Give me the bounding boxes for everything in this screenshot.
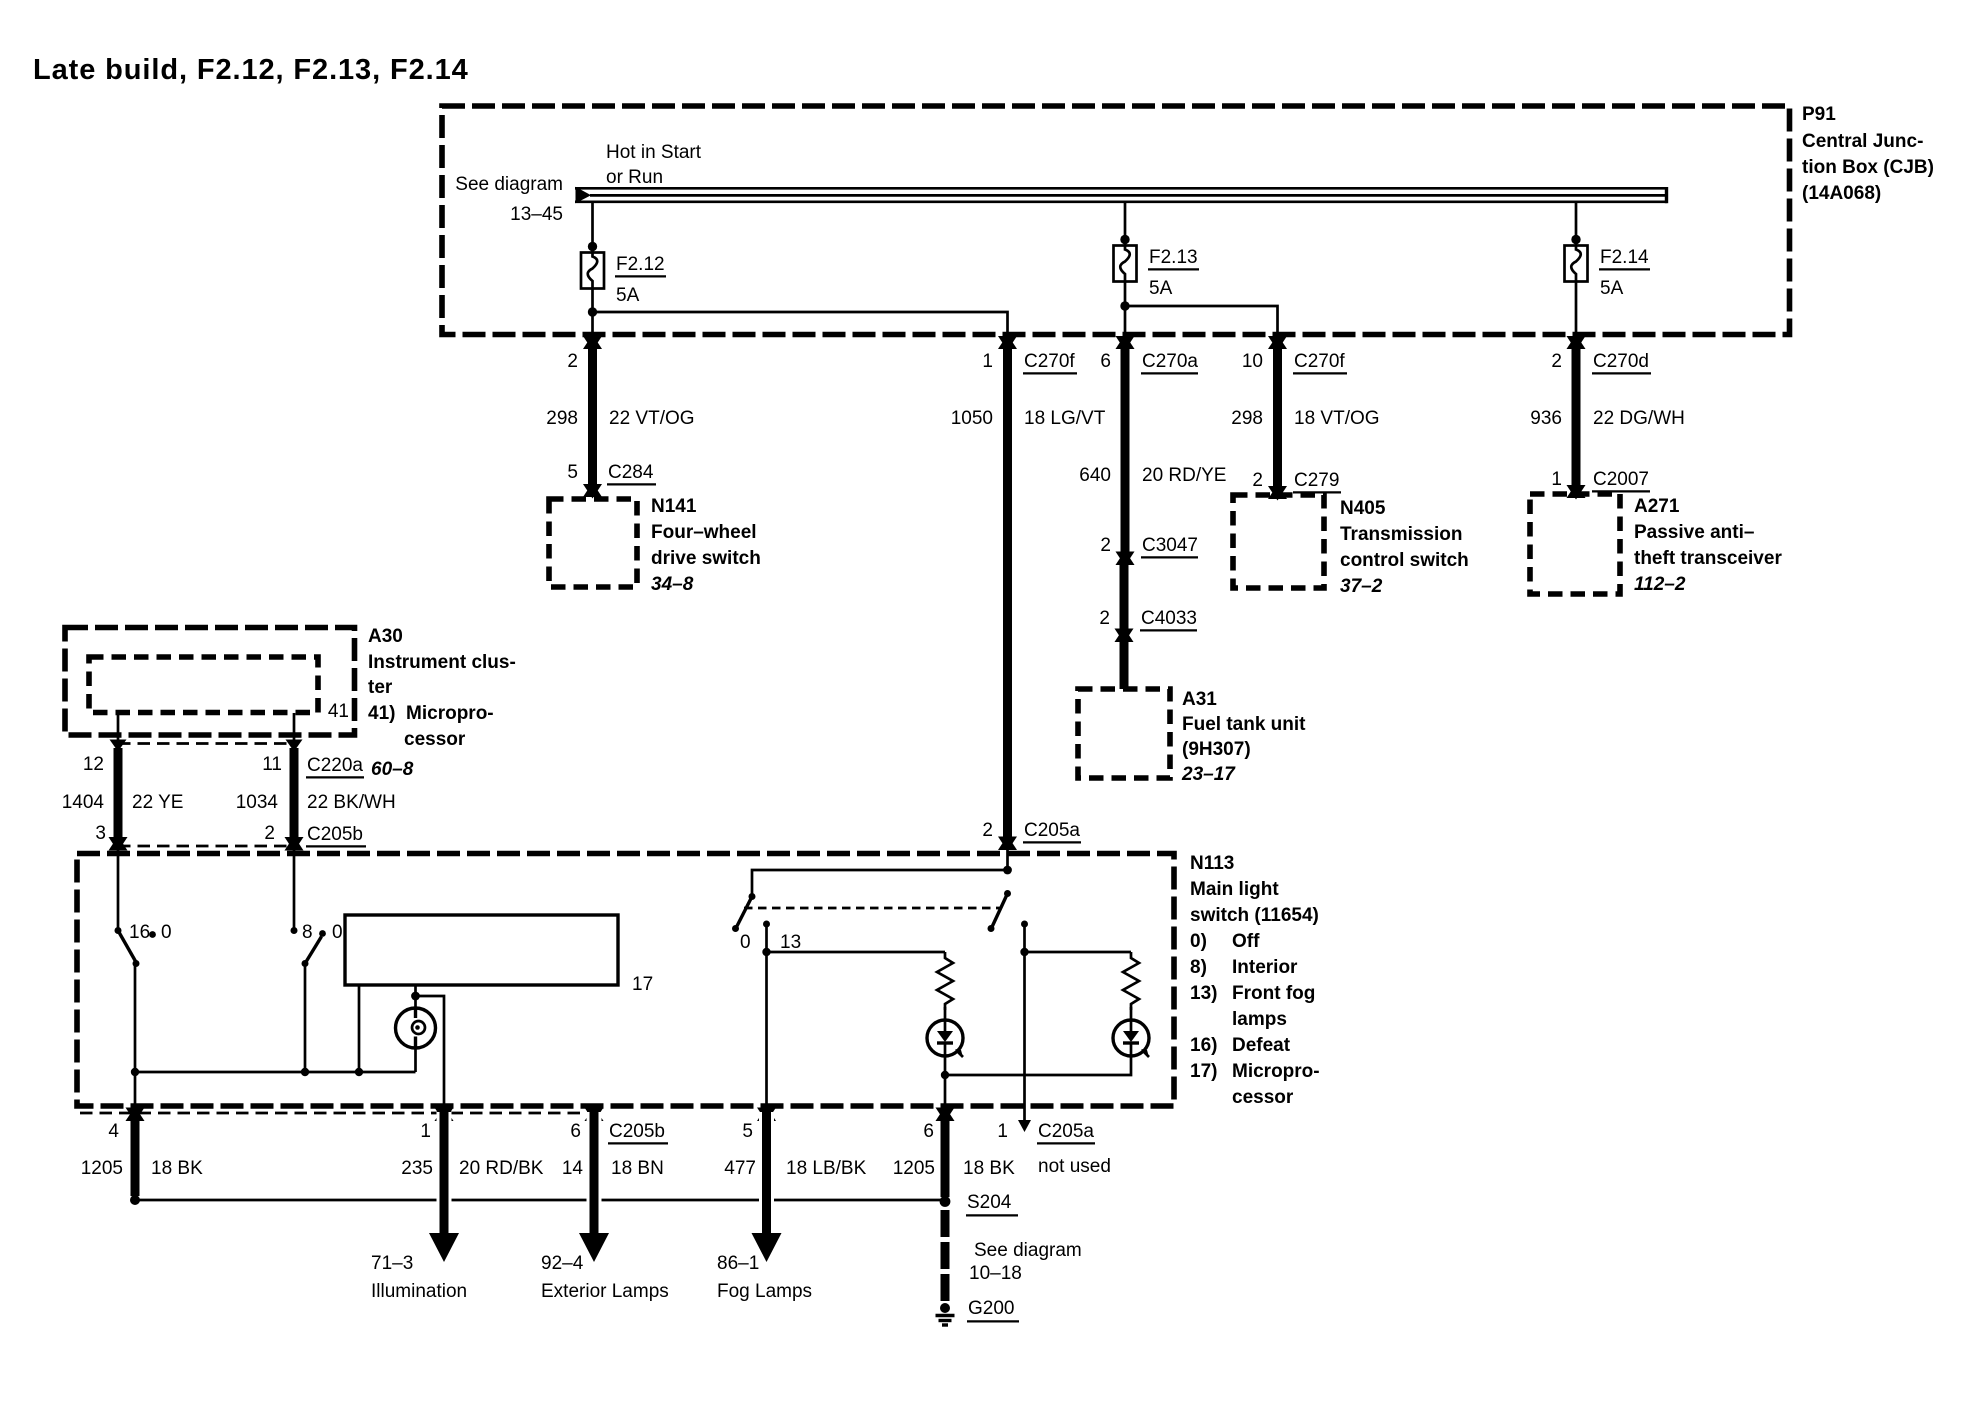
label A31 Fuel tank unit (9H307) 23-17 [1181, 689, 1306, 785]
svg-text:37–2: 37–2 [1340, 576, 1383, 597]
label S204 [966, 1192, 1018, 1215]
power bus bar [575, 187, 1667, 203]
svg-text:F2.12: F2.12 [616, 254, 665, 275]
svg-text:2: 2 [567, 351, 578, 372]
connector bowtie pin 4 at N113 bottom [126, 1107, 145, 1123]
svg-text:477: 477 [724, 1158, 756, 1179]
svg-text:22 BK/WH: 22 BK/WH [307, 792, 396, 813]
switch 8 pivot [291, 927, 298, 934]
svg-text:N141: N141 [651, 496, 697, 517]
svg-text:0: 0 [332, 922, 343, 943]
thin dashed line inside N113 bottom [80, 1112, 590, 1115]
contact terminal 13 [763, 921, 770, 928]
splice S204 [940, 1196, 951, 1207]
main light switch N113 (dashed box) [77, 854, 1174, 1107]
wire block17 to bus (left leg) [358, 985, 361, 1072]
svg-text:10–18: 10–18 [969, 1263, 1022, 1284]
svg-text:14: 14 [562, 1158, 584, 1179]
wire 1205 18 BK (thick, to splice) [131, 1112, 140, 1196]
fuse F2.14 [1565, 246, 1588, 282]
svg-text:16): 16) [1190, 1035, 1217, 1056]
label 936 22 DG/WH [1530, 408, 1685, 429]
svg-text:S204: S204 [967, 1192, 1012, 1213]
switch 16 contact [133, 960, 140, 967]
svg-text:6: 6 [570, 1121, 581, 1142]
wire branch F2.13 to C279 column [1125, 306, 1278, 338]
arrow into connector C220a (pin 12) [110, 740, 127, 752]
resistor 2 [1123, 952, 1139, 1010]
svg-text:Fuel tank unit: Fuel tank unit [1182, 714, 1306, 735]
svg-text:5A: 5A [616, 285, 640, 306]
svg-text:G200: G200 [968, 1298, 1014, 1319]
connector bowtie pin 5 at N113 bottom [757, 1107, 776, 1123]
svg-text:34–8: 34–8 [651, 574, 694, 595]
junction at 13 column [762, 948, 770, 956]
svg-text:18 VT/OG: 18 VT/OG [1294, 408, 1380, 429]
microprocessor block 17 (rectangle) [345, 915, 618, 985]
switch 8 contact [302, 960, 309, 967]
wire 13 terminal down to pin 5 [765, 924, 768, 1106]
connector bowtie C2007 [1567, 484, 1586, 500]
svg-text:4: 4 [108, 1121, 119, 1142]
svg-text:Passive anti–: Passive anti– [1634, 522, 1754, 543]
svg-text:(9H307): (9H307) [1182, 739, 1251, 760]
label: Hot in Start or Run [606, 142, 702, 188]
junction LED bus [941, 1071, 949, 1079]
junction above F2.12 [588, 242, 597, 251]
junction above F2.13 [1120, 235, 1129, 244]
svg-text:Hot in Start: Hot in Start [606, 142, 702, 163]
junction below F2.13 [1120, 301, 1129, 310]
instrument cluster A30 (outer dashed box) [65, 628, 355, 736]
svg-text:0: 0 [161, 922, 172, 943]
wire C205a into fog switch (thin) [1006, 850, 1009, 870]
svg-text:ter: ter [368, 677, 393, 698]
svg-text:A30: A30 [368, 626, 403, 647]
four-wheel drive switch N141 (dashed box) [549, 499, 637, 587]
svg-text:1404: 1404 [62, 792, 105, 813]
svg-text:18 LB/BK: 18 LB/BK [786, 1158, 867, 1179]
fog switch right pivot [1004, 890, 1011, 897]
fog switch right open contact [988, 925, 995, 932]
wire feed across to left fog pivot [752, 870, 1008, 897]
wire branch F2.12 to C205a column [593, 312, 1008, 338]
svg-text:12: 12 [83, 754, 104, 775]
fog switch left pivot [749, 893, 756, 900]
label A30 Instrument cluster 41) Microprocessor [368, 626, 516, 750]
pin 6 / connector C270a [1100, 351, 1198, 373]
junction block17 left leg [355, 1068, 363, 1076]
svg-text:18 BK: 18 BK [151, 1158, 203, 1179]
label N141 Four-wheel drive switch 34-8 [651, 496, 761, 595]
label N113 Main light switch (11654) with positions [1190, 853, 1320, 1108]
svg-text:Four–wheel: Four–wheel [651, 522, 757, 543]
wire switch 8 down to junction (thin) [304, 964, 307, 1073]
junction fog switch feed [1003, 866, 1012, 875]
svg-text:13: 13 [780, 932, 801, 953]
wire junction down to pin 6 [944, 1075, 947, 1106]
fuel tank unit A31 (dashed box) [1078, 689, 1170, 778]
svg-text:(14A068): (14A068) [1802, 183, 1881, 204]
destination 92-4 Exterior Lamps [541, 1253, 669, 1302]
svg-text:C205b: C205b [609, 1121, 665, 1142]
arrow into connector C220a (pin 11) [286, 740, 303, 752]
svg-text:936: 936 [1530, 408, 1562, 429]
svg-text:Central Junc-: Central Junc- [1802, 131, 1923, 152]
svg-text:6: 6 [1100, 351, 1111, 372]
svg-text:20 RD/YE: 20 RD/YE [1142, 465, 1226, 486]
connector label C220a / 60-8 [306, 755, 414, 780]
svg-text:A31: A31 [1182, 689, 1217, 710]
label F2.13 5A [1148, 247, 1199, 299]
svg-text:cessor: cessor [404, 729, 466, 750]
connector bowtie pin 6 at N113 bottom (S204 column) [936, 1107, 955, 1123]
svg-text:C2007: C2007 [1593, 469, 1649, 490]
svg-text:1: 1 [420, 1121, 431, 1142]
svg-text:112–2: 112–2 [1634, 574, 1686, 595]
svg-text:18 BK: 18 BK [963, 1158, 1015, 1179]
svg-text:41) Micropro-: 41) Micropro- [368, 703, 494, 724]
svg-text:N113: N113 [1190, 853, 1234, 874]
svg-text:Interior: Interior [1232, 957, 1298, 978]
wire C205b pin2 into switch 8 (thin) [293, 850, 296, 931]
junction at right column [1020, 948, 1028, 956]
wire C205b pin3 into switch 16 (thin) [117, 850, 120, 931]
svg-text:Micropro-: Micropro- [1232, 1061, 1320, 1082]
resistor 1 [937, 952, 953, 1010]
pin 2 / connector C3047 [1100, 535, 1198, 557]
svg-text:lamps: lamps [1232, 1009, 1287, 1030]
junction at switch 8 column [301, 1068, 309, 1076]
internal bus wire [135, 1071, 416, 1074]
svg-text:18 BN: 18 BN [611, 1158, 664, 1179]
wire 14 18 BN (thick with arrow) [579, 1112, 609, 1262]
label 298 18 VT/OG [1231, 408, 1379, 429]
svg-text:1: 1 [1551, 469, 1562, 490]
svg-text:Main light: Main light [1190, 879, 1279, 900]
svg-text:Front fog: Front fog [1232, 983, 1315, 1004]
svg-text:tion Box (CJB): tion Box (CJB) [1802, 157, 1934, 178]
label 298 22 VT/OG [546, 408, 694, 429]
svg-text:10: 10 [1242, 351, 1263, 372]
svg-text:N405: N405 [1340, 498, 1386, 519]
fog switch left blade [736, 897, 752, 929]
wire pin 12 to C220a (thin) [117, 713, 120, 741]
connector bowtie pin 6 C205b at N113 bottom [585, 1107, 604, 1123]
fuse F2.13 [1114, 246, 1137, 282]
wire 477 18 LB/BK (thick with arrow) [752, 1112, 782, 1262]
label A271 Passive anti-theft transceiver 112-2 [1634, 496, 1782, 595]
svg-text:C284: C284 [608, 462, 654, 483]
wire 298 18 VT/OG (thick) [1273, 342, 1282, 492]
svg-text:3: 3 [95, 823, 106, 844]
svg-text:13): 13) [1190, 983, 1217, 1004]
svg-text:8: 8 [302, 922, 313, 943]
svg-text:23–17: 23–17 [1181, 764, 1236, 785]
wire bus to fuse F2.13 [1124, 203, 1127, 245]
label F2.12 5A [615, 254, 666, 306]
svg-text:C270f: C270f [1024, 351, 1075, 372]
connector bowtie C270f at C279 column [1268, 335, 1287, 351]
svg-text:235: 235 [401, 1158, 433, 1179]
wire 936 22 DG/WH (thick) [1572, 342, 1581, 491]
svg-text:60–8: 60–8 [371, 759, 414, 780]
svg-text:C279: C279 [1294, 470, 1339, 491]
svg-text:71–3: 71–3 [371, 1253, 413, 1274]
fog switch right blade [992, 894, 1008, 929]
label 1205 18 BK [893, 1158, 1015, 1179]
wire 1205 18 BK to splice S204 (thick) [941, 1112, 950, 1197]
svg-text:92–4: 92–4 [541, 1253, 584, 1274]
svg-text:Transmission: Transmission [1340, 524, 1463, 545]
wire bus to fuse F2.12 [591, 203, 594, 252]
svg-text:0: 0 [740, 932, 751, 953]
connector bowtie C3047 [1116, 551, 1135, 567]
label P91 Central Junction Box [1802, 104, 1934, 204]
pin 10 / connector C270f [1242, 351, 1347, 373]
connector bowtie C205b pin 2 [285, 836, 304, 852]
svg-text:Illumination: Illumination [371, 1281, 467, 1302]
svg-text:Fog Lamps: Fog Lamps [717, 1281, 812, 1302]
svg-text:2: 2 [1100, 535, 1111, 556]
switch 16 blade [118, 931, 137, 964]
junction below F2.12 [588, 307, 597, 316]
svg-text:16: 16 [129, 922, 150, 943]
svg-text:5A: 5A [1149, 278, 1173, 299]
svg-text:1205: 1205 [81, 1158, 123, 1179]
svg-text:11: 11 [262, 754, 282, 775]
label F2.14 5A [1599, 247, 1650, 299]
wire C205a pin 1 stub with arrow [1018, 1106, 1031, 1132]
svg-text:5: 5 [742, 1121, 753, 1142]
pin 5 / connector C284 [567, 462, 656, 484]
pin 1 / connector C205a not used [997, 1121, 1110, 1177]
svg-text:C270d: C270d [1593, 351, 1649, 372]
connector bowtie C205a [998, 836, 1017, 852]
label 1050 18 LG/VT [951, 408, 1106, 429]
connector bowtie C4033 [1115, 628, 1134, 644]
connector bowtie C270d at F2.14 column [1567, 335, 1586, 351]
wire branch to pin 1 (thin) [416, 996, 445, 1106]
label 235 20 RD/BK [401, 1158, 544, 1179]
connector bowtie C284 [583, 483, 602, 499]
central junction box P91 (dashed outline) [442, 106, 1790, 335]
svg-text:22 YE: 22 YE [132, 792, 183, 813]
wire C3047 to C4033 (thick) [1120, 562, 1129, 635]
wire bus to fuse F2.14 [1575, 203, 1578, 245]
svg-text:2: 2 [264, 823, 275, 844]
svg-text:not used: not used [1038, 1156, 1111, 1177]
wire 1404 22 YE (thick) [114, 748, 123, 840]
svg-text:1: 1 [997, 1121, 1008, 1142]
label 14 18 BN [562, 1158, 664, 1179]
svg-text:6: 6 [923, 1121, 934, 1142]
svg-text:Late build, F2.12, F2.13, F2.1: Late build, F2.12, F2.13, F2.14 [33, 54, 469, 86]
svg-text:1: 1 [982, 351, 993, 372]
svg-text:1034: 1034 [236, 792, 279, 813]
svg-text:2: 2 [1099, 608, 1110, 629]
wire C4033 to fuel tank unit (thick) [1120, 639, 1129, 689]
svg-text:theft transceiver: theft transceiver [1634, 548, 1782, 569]
contact terminal right column [1021, 921, 1028, 928]
connector bowtie C205b pin 3 [109, 836, 128, 852]
svg-text:C270a: C270a [1142, 351, 1198, 372]
svg-text:8): 8) [1190, 957, 1207, 978]
microprocessor block inside A30 (inner dashed box) [89, 657, 318, 713]
svg-text:C220a: C220a [307, 755, 363, 776]
junction above lamp [411, 992, 420, 1001]
splice at pin 4 [130, 1195, 140, 1205]
svg-text:C3047: C3047 [1142, 535, 1198, 556]
label 477 18 LB/BK [724, 1158, 866, 1179]
connector bowtie C270a at F2.13 column [1116, 335, 1135, 351]
wire LED1 to junction [944, 1055, 947, 1075]
wire 640 20 RD/YE (thick) [1121, 342, 1130, 558]
label 8 / 0 with position dot [302, 922, 343, 943]
svg-text:P91: P91 [1802, 104, 1836, 125]
junction at switch 16 column [131, 1068, 139, 1076]
wire below fuse F2.13 [1124, 282, 1127, 339]
svg-text:C4033: C4033 [1141, 608, 1197, 629]
svg-text:1205: 1205 [893, 1158, 935, 1179]
pin 2 / connector C270d [1551, 351, 1651, 373]
pin 1 / connector C270f [982, 351, 1077, 373]
fog switch left open contact [732, 925, 739, 932]
LED indicator 2 [1113, 1007, 1149, 1057]
label 1034 22 BK/WH [236, 792, 396, 813]
svg-text:Exterior Lamps: Exterior Lamps [541, 1281, 669, 1302]
wire 298 22 VT/OG (thick) [588, 342, 597, 486]
svg-text:switch (11654): switch (11654) [1190, 905, 1319, 926]
svg-text:drive switch: drive switch [651, 548, 761, 569]
pin 6 / connector C205b label [570, 1121, 668, 1143]
svg-text:C205b: C205b [307, 824, 363, 845]
pin 2 / connector C205a at N113 top [982, 820, 1081, 842]
svg-text:or Run: or Run [606, 167, 663, 188]
label N405 Transmission control switch 37-2 [1340, 498, 1469, 597]
fuse F2.12 [581, 253, 604, 289]
svg-text:Defeat: Defeat [1232, 1035, 1291, 1056]
wire LED2 back to junction bus [945, 1055, 1131, 1075]
label G200 [967, 1298, 1019, 1321]
connector bowtie pin 1 at N113 bottom [435, 1107, 454, 1123]
svg-text:Instrument clus-: Instrument clus- [368, 652, 516, 673]
svg-text:C205a: C205a [1038, 1121, 1094, 1142]
switch 16 pivot [115, 927, 122, 934]
destination 86-1 Fog Lamps [717, 1253, 812, 1302]
junction above F2.14 [1571, 235, 1580, 244]
label 0 / 13 [740, 932, 801, 953]
svg-text:17: 17 [632, 974, 653, 995]
svg-text:5: 5 [567, 462, 578, 483]
destination 71-3 Illumination [371, 1253, 467, 1302]
wire bulb to bus [414, 1047, 417, 1072]
svg-text:22 DG/WH: 22 DG/WH [1593, 408, 1685, 429]
wire to resistor 2 [1025, 951, 1132, 954]
svg-text:See diagram: See diagram [974, 1240, 1082, 1261]
svg-text:F2.13: F2.13 [1149, 247, 1198, 268]
pin 2 / connector C4033 [1099, 608, 1197, 630]
svg-text:20 RD/BK: 20 RD/BK [459, 1158, 544, 1179]
wire 235 20 RD/BK (thick with arrow) [429, 1112, 459, 1262]
LED indicator 1 [927, 1007, 963, 1057]
pin 1 / connector C2007 [1551, 469, 1650, 491]
svg-text:18 LG/VT: 18 LG/VT [1024, 408, 1106, 429]
svg-text:F2.14: F2.14 [1600, 247, 1649, 268]
label 1205 18 BK [81, 1158, 203, 1179]
svg-text:C270f: C270f [1294, 351, 1345, 372]
svg-text:See diagram: See diagram [455, 174, 563, 195]
svg-text:22 VT/OG: 22 VT/OG [609, 408, 695, 429]
svg-text:86–1: 86–1 [717, 1253, 759, 1274]
wire below fuse F2.14 [1575, 282, 1578, 339]
svg-text:298: 298 [1231, 408, 1263, 429]
connector bowtie C270f at C205a column [998, 335, 1017, 351]
svg-text:2: 2 [1252, 470, 1263, 491]
wire 1034 22 BK/WH (thick) [290, 748, 299, 840]
svg-text:Off: Off [1232, 931, 1260, 952]
ground distribution wire [135, 1199, 941, 1202]
connector label C205b [306, 824, 366, 846]
passive anti-theft transceiver A271 (dashed box) [1530, 494, 1620, 594]
switch 8 blade [305, 937, 322, 964]
label 1404 22 YE [62, 792, 184, 813]
svg-text:298: 298 [546, 408, 578, 429]
wire to resistor 1 [767, 951, 946, 954]
svg-text:2: 2 [982, 820, 993, 841]
connector bowtie C270 at fuse F2.12 column [583, 335, 602, 351]
connector C220a dashed outline [118, 744, 294, 847]
svg-text:C205a: C205a [1024, 820, 1080, 841]
note: see diagram 10-18 [969, 1240, 1082, 1284]
svg-text:5A: 5A [1600, 278, 1624, 299]
wire right terminal down to C205a pin 1 [1023, 924, 1026, 1106]
wire 1050 18 LG/VT (thick, to C205a) [1003, 342, 1012, 841]
transmission control switch N405 (dashed box) [1233, 495, 1324, 588]
connector bowtie C279 [1268, 485, 1287, 501]
svg-text:2: 2 [1551, 351, 1562, 372]
wire S204 to ground (thick dashed) [941, 1210, 950, 1302]
fog switch mechanical linkage (dashed) [744, 907, 1001, 910]
svg-text:control switch: control switch [1340, 550, 1469, 571]
svg-text:640: 640 [1079, 465, 1111, 486]
wire below fuse F2.12 [591, 289, 594, 339]
svg-text:41: 41 [328, 701, 349, 722]
pin 2 / connector C279 [1252, 470, 1341, 492]
wire block17 to lamp (right leg) [414, 985, 417, 1008]
label 640 20 RD/YE [1079, 465, 1226, 486]
svg-text:17): 17) [1190, 1061, 1217, 1082]
svg-text:1050: 1050 [951, 408, 993, 429]
wire pin 11 to C220a (thin) [293, 713, 296, 741]
ground G200 symbol [936, 1303, 955, 1325]
note: see diagram 13-45 [455, 174, 563, 225]
svg-text:cessor: cessor [1232, 1087, 1294, 1108]
svg-text:13–45: 13–45 [510, 204, 563, 225]
illumination bulb [396, 1008, 436, 1048]
svg-text:A271: A271 [1634, 496, 1680, 517]
svg-text:0): 0) [1190, 931, 1207, 952]
label 16 / 0 with position dot [129, 922, 172, 943]
wire switch 16 down to junction (thin) [134, 964, 137, 1107]
